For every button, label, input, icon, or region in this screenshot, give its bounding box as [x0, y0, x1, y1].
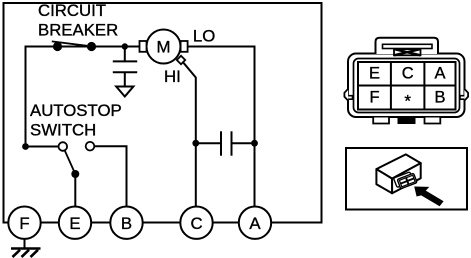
relay K1 3D body: [376, 154, 420, 193]
pin A: [239, 207, 271, 239]
svg-text:B: B: [121, 214, 132, 233]
svg-text:A: A: [249, 214, 261, 233]
autostop switch pole dot: [71, 170, 79, 178]
relay K1 socket detail: [393, 171, 417, 190]
wire pole to E: [74, 174, 76, 207]
wire LO to node A column: [188, 47, 255, 207]
pin F: [8, 207, 40, 239]
connector J1 bottom tab 1: [373, 118, 389, 124]
arrow pointer: [414, 187, 443, 207]
pin C: [180, 207, 212, 239]
connector J1 bottom tab 2 (filled): [398, 117, 416, 124]
pin E: [59, 207, 91, 239]
svg-text:F: F: [369, 88, 379, 106]
connector J1 bottom tab 3: [425, 118, 441, 124]
pin B: [110, 207, 142, 239]
svg-text:SWITCH: SWITCH: [30, 120, 96, 139]
relay panel frame: [346, 148, 467, 210]
node junction breaker/capacitor: [122, 43, 128, 49]
autostop switch S1 contact right: [86, 142, 95, 151]
circuit breaker blade: [52, 41, 87, 45]
svg-text:M: M: [157, 37, 171, 56]
autostop switch S1 contact left: [59, 142, 68, 151]
capacitor C2: [196, 131, 255, 155]
svg-text:F: F: [19, 214, 29, 233]
connector J1 latch bowtie: [394, 49, 421, 55]
connector J1 body: [348, 54, 465, 118]
wire box outline (schematic frame): [4, 3, 322, 223]
svg-text:AUTOSTOP: AUTOSTOP: [30, 101, 122, 120]
capacitor C1 (noise suppressor): [113, 47, 137, 87]
node junction autostop: [22, 143, 29, 150]
label AUTOSTOP SWITCH: [30, 101, 122, 139]
connector J1 left bump: [344, 89, 352, 101]
svg-text:CIRCUIT: CIRCUIT: [38, 1, 106, 20]
circuit breaker contact dot right: [87, 42, 96, 51]
ground (chassis, under F): [11, 239, 41, 257]
wire HI to node C column: [184, 63, 196, 207]
wire autostop left: [26, 146, 59, 148]
connector J1 right bump: [460, 89, 468, 101]
node junction cap left: [192, 140, 199, 147]
svg-text:A: A: [434, 64, 445, 82]
wire breaker row top: [26, 47, 140, 147]
autostop switch S1 blade: [65, 150, 76, 174]
circuit breaker contact dot left: [53, 42, 62, 51]
wire contact right to B: [94, 146, 126, 206]
svg-text:C: C: [190, 214, 202, 233]
svg-text:LO: LO: [193, 27, 215, 46]
connector J1 cell grid: [358, 62, 456, 110]
svg-text:B: B: [434, 88, 445, 106]
node junction cap right: [251, 140, 258, 147]
svg-text:E: E: [369, 64, 380, 82]
svg-text:BREAKER: BREAKER: [38, 21, 118, 40]
svg-text:E: E: [69, 214, 80, 233]
svg-text:*: *: [404, 92, 411, 111]
label CIRCUIT BREAKER: [38, 1, 118, 40]
ground (open triangle): [116, 87, 133, 97]
connector J1 top tab: [376, 38, 439, 54]
svg-text:C: C: [402, 64, 414, 82]
motor U1: [140, 30, 188, 65]
svg-text:HI: HI: [164, 67, 181, 86]
